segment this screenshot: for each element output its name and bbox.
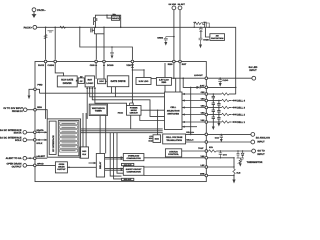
svg-text:DNB: DNB xyxy=(200,173,205,176)
svg-text:SA ANALOG: SA ANALOG xyxy=(256,137,270,140)
wire DCHG line xyxy=(103,34,105,60)
svg-text:CIRCUIT: CIRCUIT xyxy=(130,111,139,114)
svg-text:NCH GATE: NCH GATE xyxy=(61,79,73,82)
wire long bus lines xyxy=(40,92,165,94)
svg-text:CREG: CREG xyxy=(157,37,163,40)
wire DCHG internal with arrow xyxy=(103,63,105,79)
wire open drain to delay xyxy=(67,166,96,168)
terminal I2C SDATA xyxy=(23,131,27,135)
wire cell row 3 xyxy=(208,107,222,109)
wire LDOOUT external xyxy=(208,77,252,79)
svg-text:SCLK: SCLK xyxy=(15,139,22,142)
wire cell translation to CELLA+ xyxy=(186,133,205,135)
box NCH GATE DRIVER xyxy=(57,76,77,87)
svg-text:VSS: VSS xyxy=(200,155,205,158)
svg-text:OCD OUT: OCD OUT xyxy=(124,163,133,166)
svg-text:OUTPUT: OUTPUT xyxy=(57,168,66,171)
terminal I2C SCLK xyxy=(23,138,27,142)
svg-text:WATCHDOG: WATCHDOG xyxy=(92,107,105,110)
filter cap rail A xyxy=(212,94,215,127)
wire VDD branch to LDO A xyxy=(132,70,144,78)
svg-text:CELL 1: CELL 1 xyxy=(237,121,246,124)
capacitor CVDD xyxy=(199,38,203,44)
svg-text:SCLK: SCLK xyxy=(36,142,42,145)
svg-text:PACK: PACK xyxy=(118,111,124,114)
svg-text:SCD OUT: SCD OUT xyxy=(124,178,133,181)
box I2C interface registers xyxy=(47,119,80,157)
transistor Q1 discharge FET on rail xyxy=(91,27,104,34)
pin CELLA- xyxy=(205,141,208,144)
svg-text:SWITCHES: SWITCHES xyxy=(167,113,179,116)
svg-text:CAO: CAO xyxy=(215,136,220,139)
svg-text:PROTECTION: PROTECTION xyxy=(211,37,224,40)
pin CELLA+ xyxy=(205,133,208,136)
resistor on PACK drop xyxy=(44,35,47,39)
wire CHG gate line xyxy=(95,34,97,60)
filter cap rail B xyxy=(217,101,220,124)
box LDO A xyxy=(136,78,151,85)
pin DCHG xyxy=(103,60,106,63)
wire VDD into power mode xyxy=(129,103,131,106)
svg-text:CELL 3: CELL 3 xyxy=(237,107,246,110)
wire PACK internal drop xyxy=(45,63,47,119)
svg-text:RTH: RTH xyxy=(209,146,214,149)
wire RGATE to loop xyxy=(107,15,112,18)
svg-text:SDATA: SDATA xyxy=(14,132,22,135)
wire RST line xyxy=(179,10,181,60)
pin REG xyxy=(173,60,176,63)
wire power mode lower link xyxy=(140,115,165,120)
terminal PACK+ xyxy=(33,25,37,29)
wire PWD external ground xyxy=(29,89,34,95)
pin CELL3 xyxy=(205,106,208,109)
box MUX small xyxy=(153,135,161,143)
svg-text:DRIVER: DRIVER xyxy=(63,82,72,85)
svg-text:CTH: CTH xyxy=(223,154,228,157)
terminal GS TO INPUT xyxy=(252,149,256,153)
pin CELL4 xyxy=(205,99,208,102)
wire BAT to rail xyxy=(208,86,236,88)
diode internal VDD xyxy=(131,64,134,67)
capacitor CTH xyxy=(219,151,222,158)
pin CELL2 xyxy=(205,113,208,116)
pin CHG xyxy=(95,60,98,63)
resistor RGATE box xyxy=(112,16,120,20)
wire main top rail xyxy=(37,27,236,94)
box CP xyxy=(78,78,84,84)
wire BAT sense vertical xyxy=(190,87,192,134)
wire LDO output to LDOOUT pin xyxy=(171,77,205,79)
box OCD bar xyxy=(122,163,134,165)
resistor RTH xyxy=(208,150,209,152)
terminal ALERT xyxy=(23,156,27,160)
box SCD bar xyxy=(122,178,134,180)
pin VSS2 xyxy=(205,157,208,160)
svg-text:VB+: VB+ xyxy=(113,13,116,16)
pin TOUT xyxy=(205,150,208,153)
wire VDD internal xyxy=(131,63,133,103)
svg-text:CONTROL: CONTROL xyxy=(168,153,179,156)
wire cell translation to CELLA- xyxy=(186,141,205,143)
wire CELLA- external xyxy=(208,141,251,143)
terminal PACK- xyxy=(32,8,36,15)
wire BAT diode branch xyxy=(183,78,196,87)
wire preregulator down xyxy=(200,31,202,38)
resistor RLB xyxy=(233,167,235,176)
svg-text:CLDO: CLDO xyxy=(223,79,229,82)
ground arrow below PACK- xyxy=(32,15,36,18)
box SHORT CIRCUIT COMPARATOR xyxy=(123,166,144,175)
capacitor between drops xyxy=(48,31,54,32)
svg-text:INPUT: INPUT xyxy=(249,69,257,72)
svg-text:OSC: OSC xyxy=(82,150,87,153)
terminal 0-10V input xyxy=(23,108,27,112)
svg-text:RLB: RLB xyxy=(237,172,242,175)
box DOC xyxy=(98,79,106,84)
svg-text:VSS: VSS xyxy=(200,119,205,122)
svg-text:LOGIC: LOGIC xyxy=(86,82,93,85)
svg-text:MUX: MUX xyxy=(155,138,160,141)
box CELL SELECTION SWITCHES xyxy=(165,92,183,130)
svg-text:3.3V LDO: 3.3V LDO xyxy=(139,80,149,83)
svg-text:PACK+: PACK+ xyxy=(24,26,33,29)
svg-text:2W: 2W xyxy=(216,35,219,38)
wire CHG internal with arrow xyxy=(95,63,97,79)
wire cell row 4 xyxy=(208,100,222,102)
svg-text:RST: RST xyxy=(182,63,187,66)
wire CHGG internal L xyxy=(55,63,63,76)
wire DNB row xyxy=(144,175,205,177)
wire cluster to 2W box xyxy=(205,28,210,37)
svg-text:SA RST: SA RST xyxy=(178,3,186,6)
svg-text:COMPARATOR: COMPARATOR xyxy=(126,157,141,160)
ground arrow right bottom xyxy=(232,180,235,184)
wires cell selection outputs xyxy=(182,94,205,127)
box DELAY xyxy=(96,154,104,178)
svg-text:TIMER: TIMER xyxy=(95,110,102,113)
box OVERLOAD COMPARATOR xyxy=(123,154,144,161)
svg-text:THERMISTOR: THERMISTOR xyxy=(247,161,263,164)
pin PACK xyxy=(44,60,47,63)
svg-text:CLK: CLK xyxy=(82,153,87,156)
terminal SA ANALOG INPUT xyxy=(251,133,255,137)
wire REG line xyxy=(173,10,175,60)
svg-text:CELL 2: CELL 2 xyxy=(237,114,246,117)
ground arrow preregulator xyxy=(199,45,202,49)
svg-text:DELAY: DELAY xyxy=(99,161,102,169)
pin RDH xyxy=(27,109,34,111)
pin VDD xyxy=(131,60,134,63)
svg-text:SELECTION: SELECTION xyxy=(167,109,180,112)
svg-text:CELL 4: CELL 4 xyxy=(237,100,246,103)
svg-text:OUTPUT: OUTPUT xyxy=(12,165,22,168)
wire osc feeds xyxy=(82,113,84,147)
svg-text:GPOD: GPOD xyxy=(37,162,44,165)
svg-text:TOUT: TOUT xyxy=(198,147,204,150)
box STATUS CONTROL xyxy=(165,149,181,157)
box POWER MODE CIRCUIT xyxy=(127,106,142,116)
box 2W protection xyxy=(210,34,225,41)
svg-text:DCHG: DCHG xyxy=(107,64,114,67)
svg-text:PACK: PACK xyxy=(38,64,44,67)
svg-text:REG: REG xyxy=(162,81,167,84)
wire cell row 1 xyxy=(208,121,222,123)
wire FET2 loop xyxy=(95,15,120,27)
terminal SA LED INPUT xyxy=(252,76,256,80)
wire comparator feeds xyxy=(110,133,121,176)
pin CELL5 xyxy=(205,93,208,96)
svg-text:nALERT: nALERT xyxy=(36,155,45,158)
wire LBP row xyxy=(144,166,205,168)
node dots on rail xyxy=(45,27,210,48)
chip boundary xyxy=(35,62,206,182)
svg-text:CELL: CELL xyxy=(170,106,176,109)
diode D2 to BAT xyxy=(197,86,201,89)
terminal SA VDD xyxy=(172,6,176,10)
pin SDATA xyxy=(27,131,34,133)
svg-text:FROM DC: FROM DC xyxy=(12,110,23,113)
svg-text:GATE DRIVE: GATE DRIVE xyxy=(110,80,125,83)
wire PWD internal xyxy=(36,89,39,93)
pin SCLK xyxy=(27,139,34,141)
wire PACK pin drop xyxy=(45,27,47,59)
box GATE DRIVE xyxy=(107,76,129,87)
wire cell row 5 xyxy=(208,93,222,95)
capacitor CAO xyxy=(220,134,223,139)
box WATCHDOG TIMER xyxy=(89,104,107,115)
pin VSS1 xyxy=(205,121,208,124)
svg-text:SA VDD: SA VDD xyxy=(169,3,177,6)
svg-text:REG: REG xyxy=(168,63,173,66)
wire LDO feeds to cell switches xyxy=(164,85,166,92)
wire VSS row xyxy=(144,157,205,159)
svg-text:LBP: LBP xyxy=(201,164,206,167)
box I2C narrow xyxy=(49,121,56,154)
pin DNB xyxy=(205,174,208,177)
svg-text:CELLA–: CELLA– xyxy=(186,139,195,142)
wire power mode bottom to bus xyxy=(130,115,132,129)
svg-text:INPUT: INPUT xyxy=(257,153,265,156)
svg-text:RST: RST xyxy=(88,79,93,82)
pin CHGG xyxy=(54,60,57,63)
transistor Q2 charge FET xyxy=(94,17,97,25)
pin LBP xyxy=(205,166,208,169)
capacitor clamp at DCHG area xyxy=(110,47,113,56)
svg-text:CHG: CHG xyxy=(90,64,95,67)
wire watchdog to delay xyxy=(99,116,101,154)
box OPEN DRAIN OUTPUT xyxy=(55,162,67,173)
svg-text:RGATE: RGATE xyxy=(112,17,119,20)
svg-text:CELL VOLTAGE: CELL VOLTAGE xyxy=(166,136,183,139)
terminal SA RST xyxy=(178,6,182,10)
svg-text:ROM: ROM xyxy=(148,139,153,142)
wire RDH internal xyxy=(36,110,47,119)
svg-text:DOC: DOC xyxy=(99,80,104,83)
svg-text:STATUS: STATUS xyxy=(169,150,178,153)
box CELL VOLTAGE TRANSLATION xyxy=(163,134,186,144)
wire REG pin to LDO out xyxy=(173,63,175,78)
wire CELLA+ external xyxy=(208,133,251,135)
svg-text:INPUT: INPUT xyxy=(257,141,265,144)
wire into LDO B top xyxy=(164,63,166,78)
svg-text:LDOOUT: LDOOUT xyxy=(194,74,203,77)
pin nALERT xyxy=(27,157,34,159)
svg-text:TRANSLATION: TRANSLATION xyxy=(166,139,182,142)
wire status to TOUT xyxy=(182,150,205,152)
box OSC xyxy=(80,147,89,158)
wire power mode to cell switches xyxy=(141,109,165,111)
pin LDOOUT xyxy=(205,77,208,80)
pin GPOD xyxy=(27,164,34,166)
svg-text:BAT: BAT xyxy=(200,84,205,87)
svg-text:CHGG: CHGG xyxy=(47,64,54,67)
svg-text:COMPARATOR: COMPARATOR xyxy=(126,170,141,173)
terminal SA monitor xyxy=(251,140,255,144)
svg-text:CVDD: CVDD xyxy=(203,39,209,42)
resistor on rail xyxy=(60,26,66,28)
box register stack xyxy=(58,121,79,156)
wire RST pin down xyxy=(179,63,181,92)
svg-text:SDATA: SDATA xyxy=(36,129,44,132)
thermistor xyxy=(238,158,244,164)
terminal open drain output xyxy=(23,164,27,168)
box LDO B xyxy=(156,78,171,86)
zener and cap to thermistor xyxy=(237,151,245,158)
wire bus from RST LOGIC xyxy=(86,87,88,119)
wire delay to comparators xyxy=(105,157,124,170)
wire VDD feed xyxy=(80,27,133,60)
cell tap arrows and labels xyxy=(232,99,237,123)
wire LDO A to LDO B xyxy=(151,78,156,80)
svg-text:PWD: PWD xyxy=(37,84,43,87)
wire osc to delay xyxy=(89,162,97,164)
pin PWD xyxy=(34,88,37,91)
svg-text:VDD: VDD xyxy=(126,64,131,67)
svg-text:ALERT TO SA: ALERT TO SA xyxy=(6,157,22,160)
pin RST xyxy=(179,60,182,63)
wire CHGG pin drop xyxy=(54,27,56,59)
svg-text:PACK–: PACK– xyxy=(37,9,46,12)
capacitor CREG xyxy=(164,37,174,42)
svg-text:RDH: RDH xyxy=(37,106,42,109)
transistor Q3 preregulator cluster xyxy=(194,22,209,31)
svg-text:2.5V LDO: 2.5V LDO xyxy=(159,79,169,82)
wire cell row 2 xyxy=(208,114,222,116)
capacitor CLDO xyxy=(218,78,222,83)
wire register to cell translation bus xyxy=(81,128,163,130)
wire gate drive stubs xyxy=(111,87,113,94)
svg-text:I2C INTERFACE: I2C INTERFACE xyxy=(52,135,55,152)
pin BAT xyxy=(205,86,208,89)
box RST LOGIC xyxy=(85,76,94,87)
